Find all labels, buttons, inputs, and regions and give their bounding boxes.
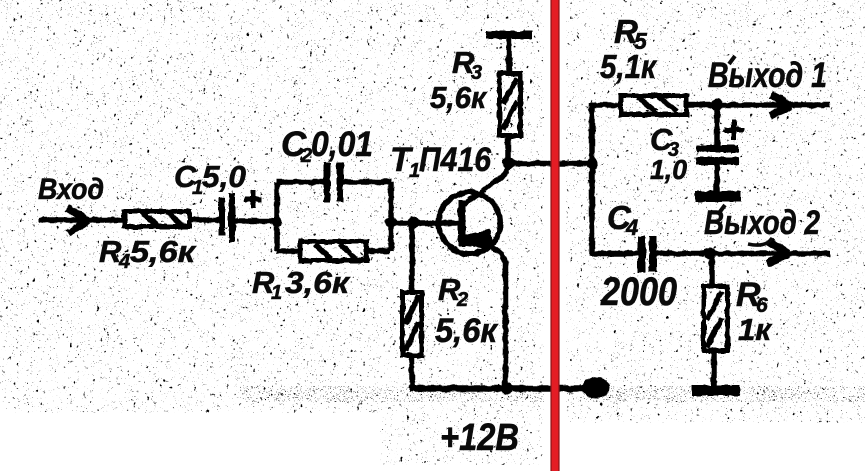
svg-text:4: 4	[625, 215, 638, 240]
svg-text:Выход 1: Выход 1	[708, 56, 827, 95]
svg-text:0,01: 0,01	[311, 125, 373, 164]
svg-text:П416: П416	[419, 141, 492, 179]
svg-text:5,6к: 5,6к	[430, 80, 487, 115]
svg-text:3,6к: 3,6к	[285, 265, 350, 300]
svg-text:1к: 1к	[738, 312, 772, 347]
svg-text:1,0: 1,0	[650, 154, 687, 185]
svg-text:Вход: Вход	[38, 173, 104, 206]
svg-text:+12В: +12В	[440, 417, 519, 459]
svg-text:2: 2	[456, 289, 468, 311]
svg-text:5,6к: 5,6к	[435, 312, 499, 350]
svg-text:5,6к: 5,6к	[130, 234, 196, 269]
svg-text:1: 1	[271, 282, 282, 304]
svg-text:5,0: 5,0	[202, 159, 246, 194]
svg-text:2000: 2000	[600, 270, 677, 314]
svg-text:5,1к: 5,1к	[600, 48, 658, 85]
svg-text:4: 4	[118, 251, 130, 273]
